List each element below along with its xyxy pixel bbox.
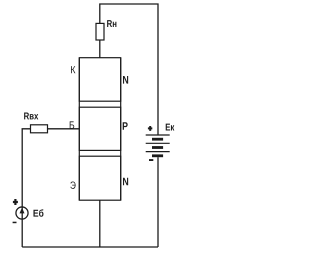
wire bottom rail bbox=[22, 246, 158, 248]
label Ек bbox=[166, 124, 175, 131]
plus sign of battery bbox=[148, 126, 152, 131]
plus sign of Еб bbox=[13, 199, 18, 205]
label N bottom region bbox=[123, 178, 128, 186]
wire from Еб down to bottom rail bbox=[21, 219, 23, 247]
source Еб arrow bbox=[21, 207, 23, 219]
label N top region bbox=[123, 76, 128, 84]
wire emitter: transistor bottom to bottom rail bbox=[99, 200, 101, 247]
wire left side edge connecting sub-rects bbox=[78, 58, 80, 201]
transistor body: N region (collector) bbox=[79, 58, 120, 101]
minus sign of battery bbox=[149, 159, 153, 161]
label К (collector terminal) bbox=[71, 66, 75, 73]
resistor Rвх (input) bbox=[31, 125, 48, 133]
minus sign of Еб bbox=[13, 222, 17, 224]
wire collector: resistor bottom to transistor top bbox=[99, 40, 101, 58]
wire top horizontal from collector branch to battery branch bbox=[100, 4, 158, 135]
wire base: from input resistor to transistor left edge bbox=[48, 128, 80, 130]
label Rвх bbox=[24, 113, 38, 120]
battery cell plate long 2 bbox=[146, 142, 170, 144]
battery cell plate short thick 3 bbox=[152, 154, 163, 157]
label Б (base terminal) bbox=[70, 121, 75, 128]
resistor Rн (load) bbox=[96, 23, 104, 40]
label Э (emitter terminal) bbox=[70, 181, 75, 188]
battery cell plate short thick 1 bbox=[152, 138, 163, 141]
label Rн bbox=[107, 20, 116, 27]
battery Ек cell plate long 1 bbox=[146, 134, 170, 136]
battery cell plate short thick 2 bbox=[152, 146, 163, 149]
wire from battery bottom to bottom rail bbox=[157, 157, 159, 247]
transistor body: P region (base) bbox=[79, 107, 120, 150]
source Еб circle bbox=[16, 207, 28, 219]
transistor body: N region (emitter) bbox=[79, 156, 120, 200]
wire from left branch to input resistor bbox=[22, 129, 30, 207]
battery cell plate long 3 bbox=[146, 151, 170, 153]
label Еб bbox=[33, 209, 43, 216]
wire right side edge connecting sub-rects bbox=[120, 58, 122, 201]
label P middle region bbox=[123, 122, 128, 130]
